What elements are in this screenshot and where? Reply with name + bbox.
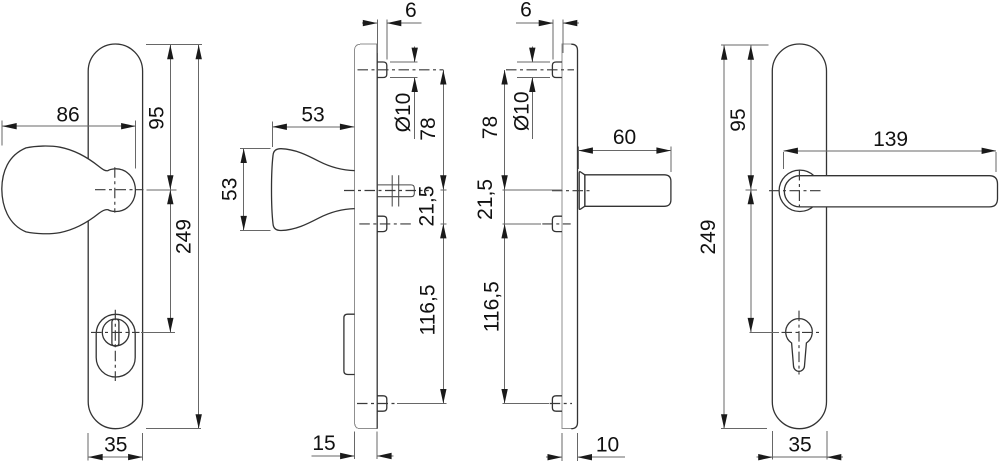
knob centerline horizontal — [95, 189, 144, 191]
lever centerline vertical — [798, 170, 800, 212]
svg-text:6: 6 — [520, 0, 532, 22]
svg-text:249: 249 — [172, 219, 195, 254]
screw lug top — [377, 62, 387, 78]
VIEW4 front plate with lever — [697, 44, 998, 460]
screw lug top — [552, 62, 562, 78]
screw lug middle — [377, 216, 387, 231]
dim 6 extension left — [552, 19, 554, 59]
chain tick at knob axis — [440, 189, 446, 191]
dim O10 line — [414, 46, 416, 139]
svg-text:21,5: 21,5 — [474, 179, 497, 220]
dim 10 line — [546, 456, 625, 458]
lever centerline horizontal — [769, 190, 821, 192]
screw lug bottom — [377, 396, 387, 411]
bottom lug axis centerline — [357, 403, 397, 405]
dim 6 line — [516, 22, 579, 24]
knob centerline vertical — [114, 167, 116, 212]
bottom lug axis extension — [397, 403, 446, 405]
keyhole centerline vertical — [798, 311, 800, 375]
svg-text:95: 95 — [727, 108, 750, 131]
backplate P1 (front view) — [88, 44, 142, 429]
svg-text:Ø10: Ø10 — [392, 93, 415, 133]
dim O10 extension top — [517, 61, 550, 63]
top lug axis centerline — [506, 69, 574, 71]
knob axis extension — [147, 189, 177, 191]
svg-text:95: 95 — [146, 106, 169, 129]
spindle shaft — [377, 185, 414, 197]
dim 15 extension left — [354, 432, 356, 460]
svg-text:53: 53 — [301, 103, 324, 126]
screw lug bottom — [552, 396, 562, 411]
dim 35 line — [88, 456, 142, 458]
dim 139 extension left — [782, 152, 784, 169]
dim 35 line — [756, 456, 842, 458]
extension at lever axis — [503, 189, 562, 191]
dim 35 extension right — [142, 433, 144, 461]
lever rose circle — [779, 170, 820, 211]
screw lug middle — [552, 216, 562, 231]
VIEW2 profile inside — [272, 0, 447, 459]
dim 86 line — [2, 125, 135, 127]
dim 53 horizontal line — [272, 126, 354, 128]
top lug axis centerline — [358, 69, 444, 71]
top extension line — [721, 44, 768, 46]
svg-text:116,5: 116,5 — [481, 281, 504, 332]
dim 10 extension right — [577, 433, 579, 461]
dim 10 extension left — [561, 433, 563, 461]
backplate P3 right face — [571, 44, 577, 429]
dim O10 extension bottom — [517, 77, 550, 79]
dim O10 line — [531, 46, 533, 139]
VIEW1 front plate with knob — [2, 44, 271, 461]
dim O10 extension bottom — [390, 77, 418, 79]
euro keyhole cutout — [786, 319, 813, 372]
svg-text:15: 15 — [312, 432, 335, 455]
backplate P4 (front view) — [772, 44, 826, 429]
cylinder circle — [102, 319, 129, 346]
extension at middle lug axis — [503, 223, 541, 225]
dim 249 line — [723, 45, 725, 429]
svg-text:35: 35 — [104, 433, 127, 456]
dim 86 extension left — [1, 121, 3, 146]
svg-text:53: 53 — [218, 178, 241, 201]
VIEW3 profile outside — [474, 0, 671, 461]
lever axis centerline — [552, 190, 592, 192]
dim 249 line — [198, 45, 200, 429]
dim 60 extension left — [577, 147, 579, 169]
dim 35 extension left — [772, 431, 774, 459]
dim 53 tick top — [240, 148, 271, 150]
lever bar — [784, 176, 997, 207]
dim 53 horizontal extension left — [271, 122, 273, 148]
dim 53 line — [243, 149, 245, 231]
backplate P3 (side profile) — [562, 44, 571, 429]
svg-text:249: 249 — [697, 219, 720, 254]
dim 53 tick bottom — [240, 229, 271, 231]
cylinder axis extension — [141, 331, 175, 333]
dim 139 line — [783, 150, 996, 152]
svg-text:Ø10: Ø10 — [511, 91, 534, 131]
middle lug axis centerline — [359, 223, 412, 225]
dim 95 chain line — [750, 45, 752, 332]
dim 6 extension right — [562, 19, 564, 53]
dim O10 extension top — [390, 61, 418, 63]
backplate P2 right face — [376, 44, 378, 429]
knob K1 (front view) — [2, 146, 136, 234]
dim 86 extension right — [135, 121, 137, 169]
top extension line — [146, 44, 202, 46]
cylinder recess oval — [96, 314, 135, 377]
dim 139 extension right — [995, 152, 997, 172]
knob axis centerline — [344, 190, 429, 192]
dim 35 extension left — [87, 433, 89, 461]
bottom extension line — [721, 428, 767, 430]
lever neck cylinder — [585, 175, 671, 207]
backplate P2 (side profile) — [355, 44, 378, 429]
dim 6 extension right — [386, 19, 388, 59]
dim 60 line — [578, 150, 671, 152]
lever flange — [579, 172, 585, 210]
dim 6 line — [362, 22, 422, 24]
spindle flange ticks — [392, 175, 399, 206]
dim 15 extension right — [376, 432, 378, 460]
dim 6 extension left — [376, 19, 378, 53]
cylinder centerline horizontal — [91, 331, 140, 333]
dim chain line 78/21,5/116,5 — [442, 70, 444, 404]
svg-text:139: 139 — [873, 128, 908, 151]
extension at bottom lug axis — [503, 403, 549, 405]
keyway slot — [112, 319, 119, 346]
svg-text:78: 78 — [479, 116, 502, 139]
svg-text:21,5: 21,5 — [416, 186, 439, 227]
bottom lug axis centerline — [550, 403, 572, 405]
dim chain line 78/21,5/116,5 — [504, 70, 506, 404]
svg-text:10: 10 — [596, 434, 619, 457]
svg-text:60: 60 — [613, 126, 636, 149]
bottom extension line — [146, 428, 201, 430]
chain tick at lever axis — [745, 189, 757, 191]
cylinder housing bump — [344, 314, 355, 374]
dim 15 line — [312, 455, 394, 457]
dim 95 chain line — [169, 45, 171, 333]
svg-text:6: 6 — [405, 0, 417, 22]
cylinder centerline vertical — [114, 310, 116, 381]
dim 60 extension right — [670, 147, 672, 172]
dim 35 extension right — [826, 431, 828, 459]
keyhole centerline horizontal — [782, 331, 821, 333]
svg-text:116,5: 116,5 — [417, 285, 440, 336]
svg-text:35: 35 — [788, 433, 811, 456]
svg-text:78: 78 — [417, 117, 440, 140]
svg-text:86: 86 — [56, 104, 79, 127]
chain tick at middle lug axis — [440, 223, 446, 225]
cylinder axis extension — [749, 331, 779, 333]
middle lug axis centerline — [542, 223, 570, 225]
knob K2 (side profile) — [272, 149, 355, 231]
